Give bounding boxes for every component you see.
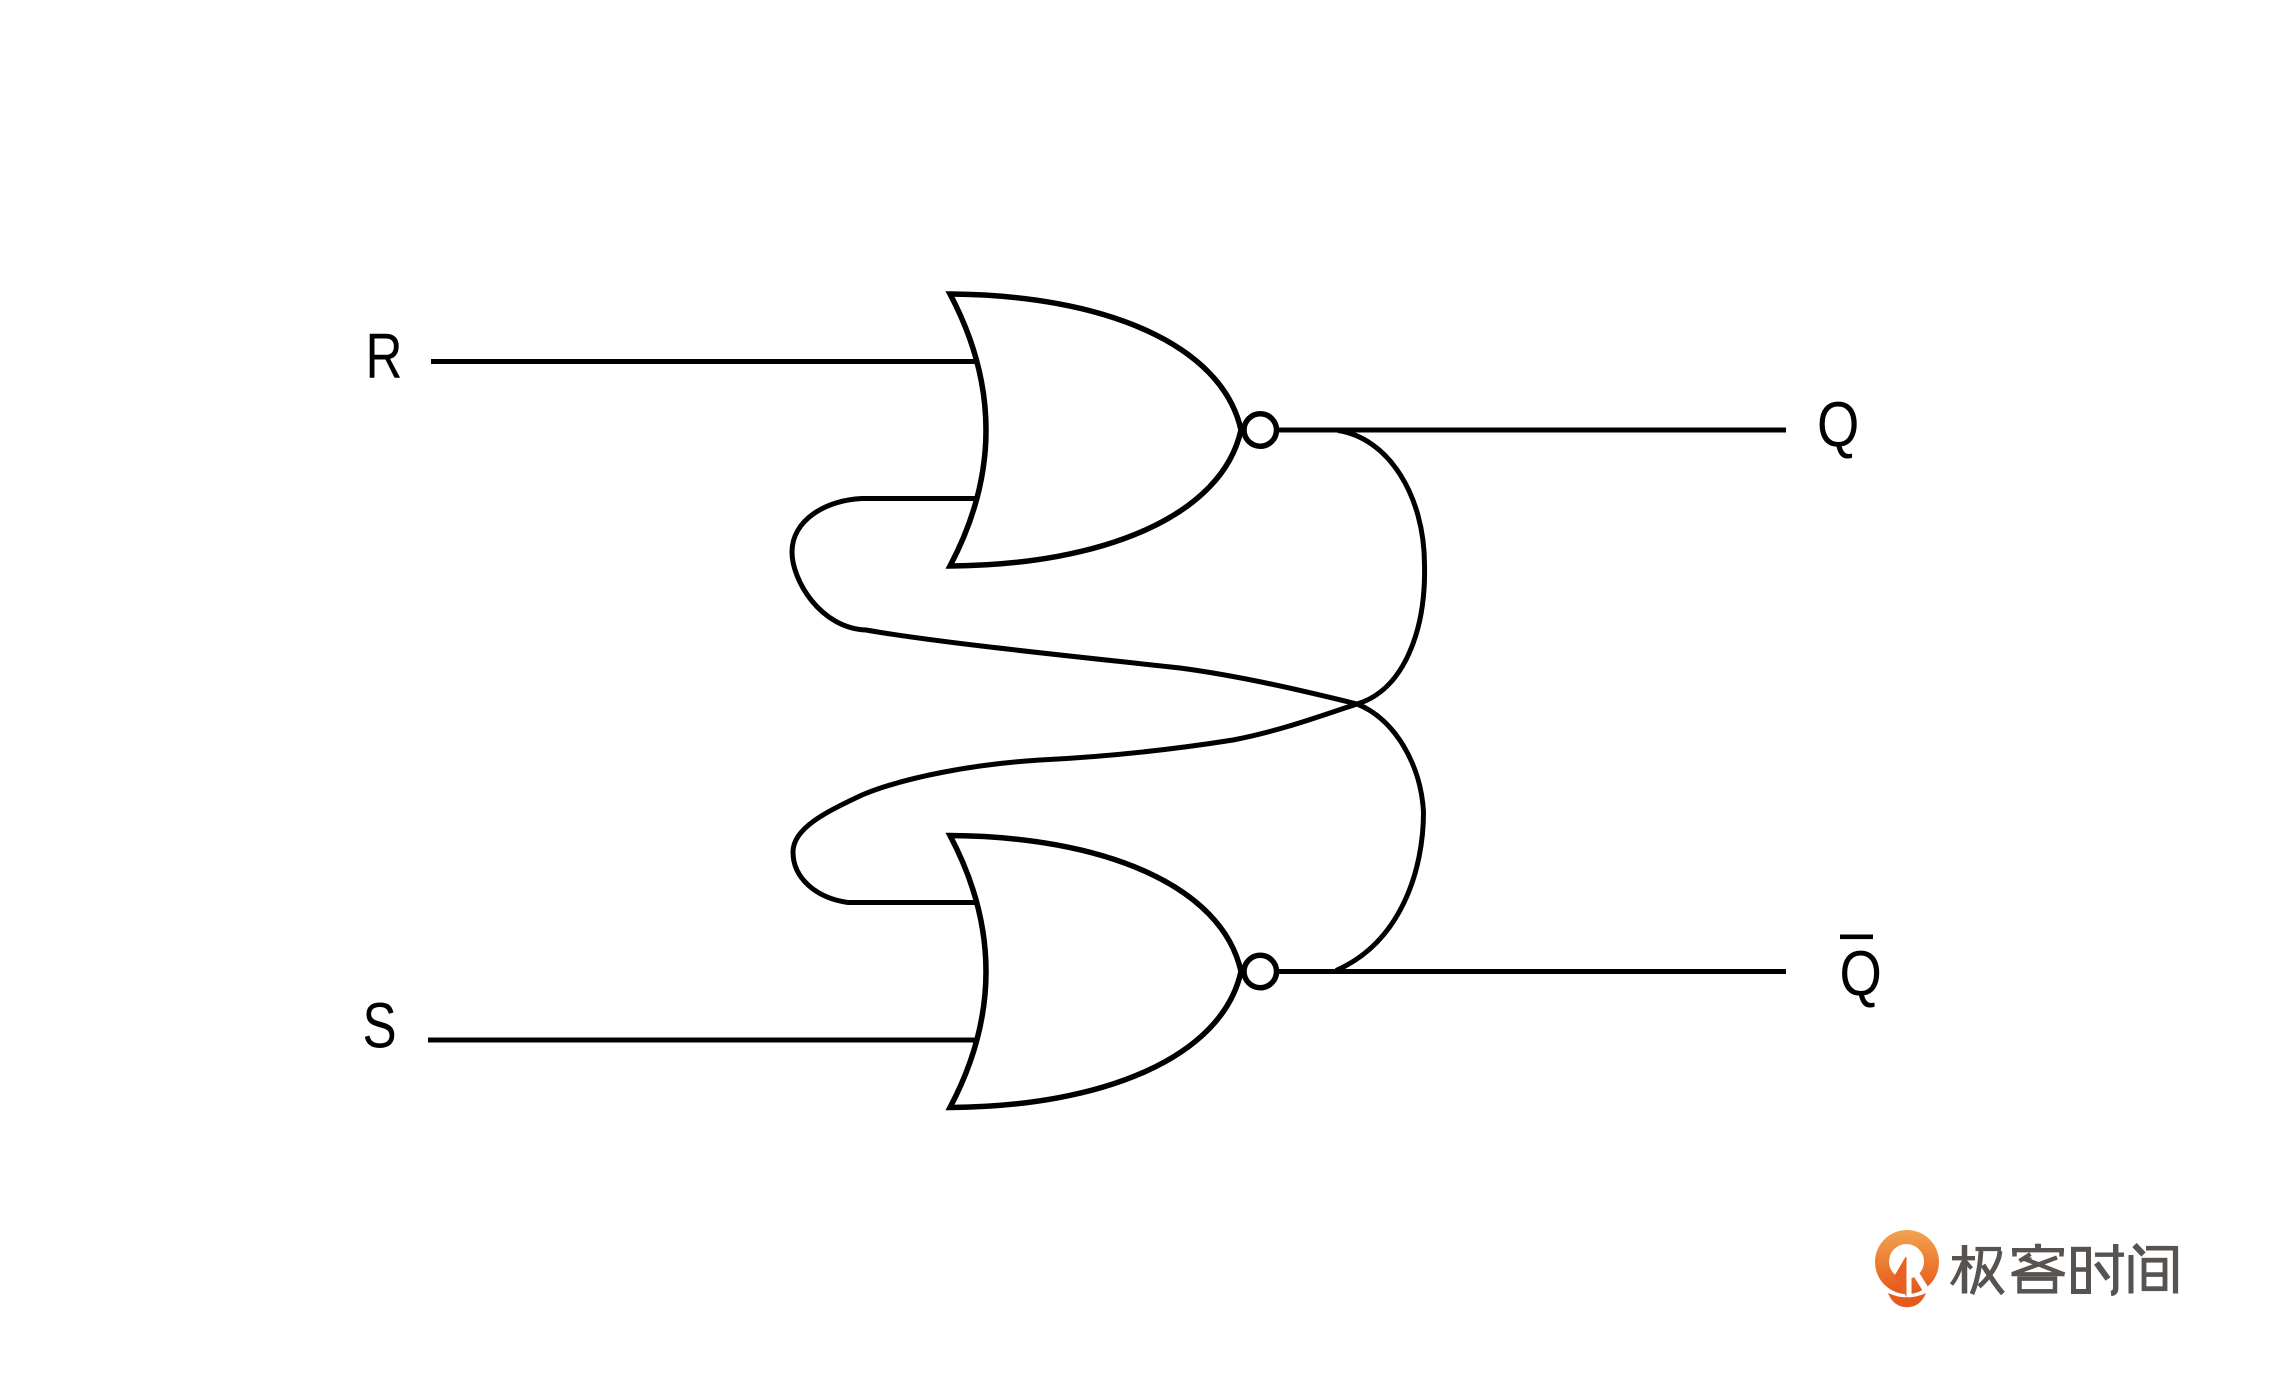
- svg-text:Q: Q: [1840, 937, 1882, 1009]
- inversion bubble of U1: [1244, 414, 1277, 447]
- inversion bubble of U2: [1244, 955, 1277, 988]
- char 间: [2131, 1245, 2176, 1294]
- svg-text:Q: Q: [1817, 388, 1859, 460]
- char 客: [2012, 1244, 2065, 1292]
- NOR gate U1 (top) body: [950, 294, 1241, 566]
- logo text: 极客时间 (drawn strokes): [1952, 1244, 2176, 1294]
- wire R input: [431, 359, 1000, 364]
- wire Q output: [1277, 428, 1786, 433]
- char 时: [2072, 1244, 2125, 1294]
- wire feedback A: Q output to lower gate top input: [793, 431, 1425, 903]
- NOR gate U2 (bottom) body: [950, 836, 1241, 1108]
- logo icon: orange pin: [1875, 1230, 1939, 1307]
- wire Q-bar output: [1277, 969, 1786, 974]
- wire feedback B: upper gate lower input to Q-bar output: [792, 499, 1424, 971]
- wire S input: [428, 1038, 1000, 1043]
- svg-text:R: R: [366, 322, 403, 393]
- char 极: [1952, 1245, 2004, 1294]
- svg-text:S: S: [363, 991, 397, 1062]
